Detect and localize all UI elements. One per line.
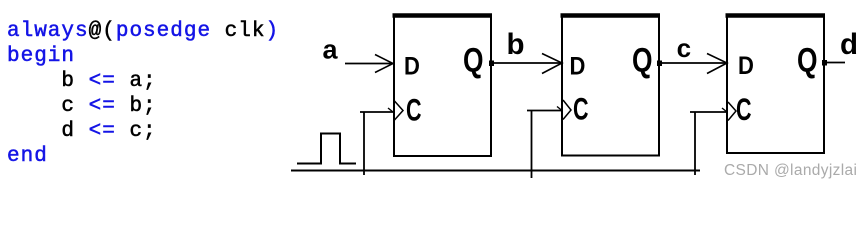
svg-text:D: D [404, 53, 420, 81]
svg-text:b: b [507, 28, 525, 61]
svg-text:D: D [570, 52, 586, 80]
svg-text:a: a [323, 35, 339, 65]
svg-text:Q: Q [632, 41, 653, 79]
svg-text:D: D [738, 52, 754, 80]
svg-text:Q: Q [463, 41, 484, 79]
svg-text:d: d [840, 28, 858, 61]
svg-text:C: C [406, 93, 422, 128]
svg-text:c: c [677, 33, 691, 63]
svg-text:C: C [573, 92, 589, 127]
svg-text:C: C [736, 92, 752, 127]
svg-text:Q: Q [797, 41, 818, 79]
